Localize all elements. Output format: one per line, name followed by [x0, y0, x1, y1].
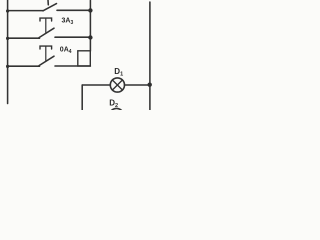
svg-text:D1: D1	[114, 67, 123, 78]
svg-text:3A3: 3A3	[62, 18, 74, 27]
svg-text:0A4: 0A4	[60, 47, 72, 56]
svg-text:D2: D2	[109, 98, 118, 109]
